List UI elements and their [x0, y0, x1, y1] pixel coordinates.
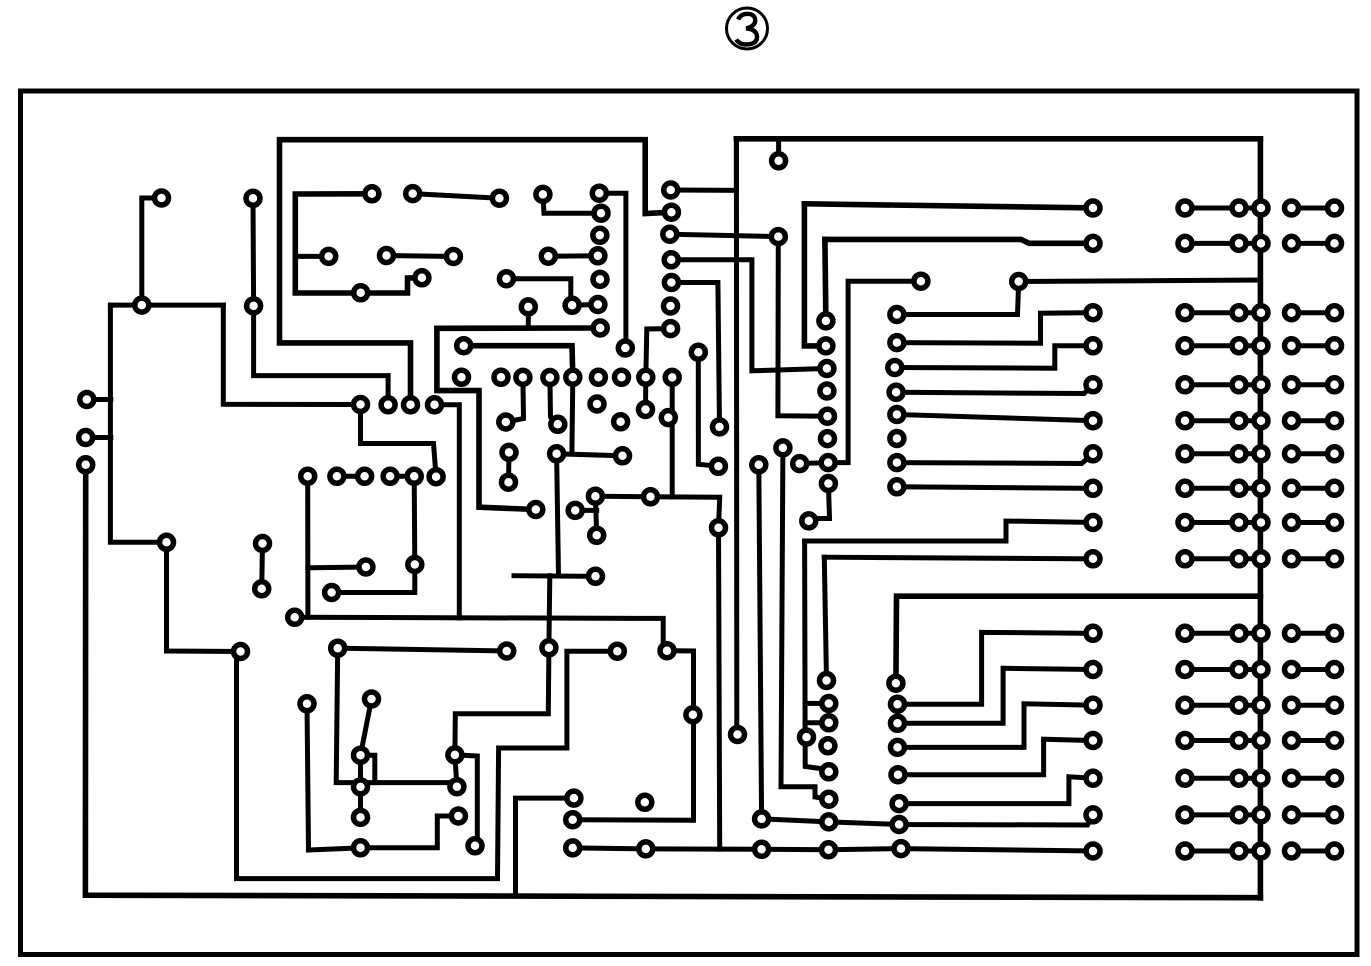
pad L10	[1086, 552, 1100, 566]
pad B3b	[1328, 306, 1342, 320]
wire row3 outer pair	[1292, 310, 1335, 315]
wire bottom long	[85, 465, 1260, 898]
pad B13b	[1328, 698, 1342, 712]
wire P69 to P87	[671, 260, 827, 371]
pad A3a	[1178, 306, 1192, 320]
wire P55-P56	[506, 452, 512, 482]
pad P8	[160, 535, 174, 549]
pad P131	[542, 641, 556, 655]
pad P7	[79, 458, 93, 472]
pad P140	[566, 813, 580, 827]
pad P37	[322, 249, 336, 263]
pad B2b	[1328, 236, 1342, 250]
pad B4b	[1328, 339, 1342, 353]
pad P27	[429, 470, 443, 484]
wire P165 to L13	[898, 704, 1094, 748]
wire P13 to P20	[307, 704, 361, 850]
wire y497	[595, 496, 719, 528]
pad B1b	[1328, 201, 1342, 215]
pad P169	[894, 842, 908, 856]
pad P104	[820, 674, 834, 688]
wire x805 branch2	[805, 720, 829, 725]
wire P29 to P27	[361, 405, 437, 477]
wire row5 inner pair	[1185, 382, 1239, 387]
wire row9 inner pair	[1185, 520, 1239, 525]
pad P20	[354, 841, 368, 855]
pad P55	[502, 445, 516, 459]
wire row7 inner pair	[1185, 451, 1239, 456]
pad B7a	[1285, 447, 1299, 461]
pad B13a	[1285, 698, 1299, 712]
pad P58	[614, 415, 628, 429]
pad P108	[822, 765, 836, 779]
wire P48 drop	[569, 377, 575, 454]
wire P162 to bus	[896, 596, 1261, 683]
pad P102	[755, 812, 769, 826]
wire x223 drop	[223, 305, 360, 404]
pad P16	[331, 641, 345, 655]
pad L8	[1086, 481, 1100, 495]
wire row7 bus stub	[1239, 451, 1261, 456]
pad P98	[713, 420, 727, 434]
wire x736 drop	[736, 139, 737, 735]
pad B7b	[1328, 447, 1342, 461]
pad P118	[591, 249, 605, 263]
wire row15 inner pair	[1185, 776, 1239, 781]
wire P164 to L12	[898, 668, 1094, 723]
wire row4 inner pair	[1185, 343, 1239, 348]
pad BUS11	[1254, 626, 1268, 640]
wire P57 to P59	[557, 454, 623, 456]
wire P96 to P102	[759, 465, 762, 819]
wire row10 inner pair	[1185, 556, 1239, 561]
wire P73 stub	[776, 139, 781, 161]
pad P84	[890, 480, 904, 494]
wire P83 to L7	[897, 454, 1093, 464]
pad P48	[566, 370, 580, 384]
wire row10 outer pair	[1292, 556, 1335, 561]
pad P28	[408, 558, 422, 572]
pad B2a	[1285, 236, 1299, 250]
wire P68 to P74	[670, 234, 779, 236]
pad P133	[610, 644, 624, 658]
pad P142	[638, 795, 652, 809]
wire row11 bus stub	[1239, 631, 1261, 636]
wire P8 to P11	[167, 542, 241, 651]
pad BUS16	[1254, 808, 1268, 822]
pad A3b	[1232, 306, 1246, 320]
wire row4 bus stub	[1239, 343, 1261, 348]
wire row9 outer pair	[1292, 520, 1335, 525]
pad P135	[448, 748, 462, 762]
wire y849 long	[573, 848, 1093, 851]
pad A2a	[1178, 236, 1192, 250]
pad P97	[711, 459, 725, 473]
pad P121	[593, 228, 607, 242]
pad B9b	[1328, 516, 1342, 530]
pad P77	[890, 308, 904, 322]
wire P77 to P76	[897, 282, 1019, 315]
pad P47	[543, 371, 557, 385]
wire y783	[336, 648, 457, 787]
pad P46	[516, 370, 530, 384]
wire P125 stub	[526, 307, 531, 328]
wire x805 drop	[805, 541, 829, 772]
pad A5b	[1232, 378, 1246, 392]
pad P67	[664, 205, 678, 219]
pad P93	[793, 457, 807, 471]
wire P78 to L3	[897, 313, 1093, 344]
wire P124 chain	[506, 279, 598, 306]
pad P31	[404, 398, 418, 412]
pad L13	[1086, 698, 1100, 712]
pad P117	[541, 249, 555, 263]
pad P166	[891, 768, 905, 782]
wire row5 outer pair	[1292, 382, 1335, 387]
pad P71	[664, 299, 678, 313]
pad P90	[821, 432, 835, 446]
wire row13 outer pair	[1292, 703, 1335, 708]
wire row2 bus stub	[1239, 241, 1261, 246]
pad A13b	[1232, 698, 1246, 712]
wire trace2 stub	[295, 254, 328, 259]
pad P139	[567, 791, 581, 805]
pad P40	[354, 286, 368, 300]
wire P163 to L11	[898, 632, 1094, 704]
pad P91	[821, 456, 835, 470]
pad P39	[446, 250, 460, 264]
wire trace2	[295, 194, 422, 293]
pad B15b	[1328, 771, 1342, 785]
wire row13 bus stub	[1239, 703, 1261, 708]
wire P81 to L6	[897, 415, 1093, 421]
pad P1	[155, 191, 169, 205]
wire y576	[514, 573, 596, 579]
pad P79	[888, 361, 902, 375]
pad BUS5	[1254, 378, 1268, 392]
wire snake P133	[237, 651, 618, 878]
pad P53	[499, 415, 513, 429]
pad P134	[660, 644, 674, 658]
pad P116	[591, 298, 605, 312]
wire P34-P35	[413, 194, 500, 199]
pad L2	[1086, 236, 1100, 250]
pad P22	[301, 469, 315, 483]
pad P34	[406, 187, 420, 201]
pad A7a	[1178, 447, 1192, 461]
pad B17a	[1285, 844, 1299, 858]
pad P3	[246, 191, 260, 205]
wire P80 to L5	[896, 385, 1093, 394]
wire P99 drop	[719, 528, 720, 849]
pad P94	[802, 514, 816, 528]
wire row6 inner pair	[1185, 418, 1239, 423]
wire P166 to L14	[898, 739, 1093, 775]
pad P60	[639, 403, 653, 417]
wire row9 bus stub	[1239, 520, 1261, 525]
pad A14b	[1232, 734, 1246, 748]
pad A8a	[1178, 481, 1192, 495]
pad BUS1	[1254, 201, 1268, 215]
wire P51-P60	[643, 377, 648, 409]
wire P23-P24	[337, 474, 365, 479]
pad P73	[772, 154, 786, 168]
pad P59	[616, 449, 630, 463]
pad BUS9	[1254, 516, 1268, 530]
pad P9	[256, 537, 270, 551]
wire y557 to L10	[824, 557, 1096, 559]
pad P63	[593, 321, 607, 335]
pad A6a	[1178, 414, 1192, 428]
pad P83	[890, 456, 904, 470]
pad L1	[1086, 201, 1100, 215]
wire row5 bus stub	[1239, 382, 1261, 387]
pad B5a	[1285, 378, 1299, 392]
wire y204 to L1	[804, 204, 1093, 208]
figure label circled 3	[727, 8, 768, 49]
wire P57 drop	[557, 454, 559, 576]
wire row13 inner pair	[1185, 703, 1239, 708]
pad B17b	[1328, 844, 1342, 858]
wire bus vertical	[1258, 139, 1264, 898]
pad B14b	[1328, 734, 1342, 748]
pad B11b	[1328, 626, 1342, 640]
pad P82	[890, 432, 904, 446]
wire row3 inner pair	[1185, 310, 1239, 315]
pad P65	[691, 345, 705, 359]
pad P2 junction	[135, 298, 149, 312]
pad B6b	[1328, 414, 1342, 428]
pad P162	[889, 676, 903, 690]
wire P5 stub	[87, 397, 111, 402]
pad B10b	[1328, 552, 1342, 566]
wire row8 inner pair	[1185, 486, 1239, 491]
pad A2b	[1232, 236, 1246, 250]
pad P124	[499, 272, 513, 286]
pad L7	[1086, 447, 1100, 461]
wire P32 drop	[435, 405, 460, 618]
pad P80	[889, 385, 903, 399]
pad P50	[615, 370, 629, 384]
pad P12	[288, 610, 302, 624]
pad B12b	[1328, 663, 1342, 677]
wire row1 inner pair	[1185, 206, 1239, 211]
pad P165	[891, 740, 905, 754]
pad L3	[1086, 306, 1100, 320]
wire P26 to P28	[412, 476, 418, 564]
wire row14 outer pair	[1292, 738, 1335, 743]
wire P66 up	[671, 139, 737, 190]
wire P16-P132	[338, 648, 507, 651]
wire x804 to P86	[804, 204, 826, 346]
wire P135 hook	[455, 755, 477, 846]
pad P52	[665, 370, 679, 384]
pad P62	[618, 341, 632, 355]
pad P10	[255, 582, 269, 596]
wire row6 outer pair	[1292, 418, 1335, 423]
pad B8a	[1285, 481, 1299, 495]
pad P101	[731, 728, 745, 742]
wire P75 to P91	[828, 281, 921, 462]
wire row2 outer pair	[1292, 241, 1335, 246]
pad P95	[776, 441, 790, 455]
pad P109	[822, 792, 836, 806]
pad A4b	[1232, 339, 1246, 353]
pad A1b	[1232, 201, 1246, 215]
pad BUS13	[1254, 698, 1268, 712]
pad P100	[686, 708, 700, 722]
pad P163	[891, 697, 905, 711]
pad P6	[79, 431, 93, 445]
pad P85	[819, 314, 833, 328]
pad P26	[407, 469, 421, 483]
wire P135-P136	[455, 755, 457, 787]
pad P99	[712, 521, 726, 535]
pad L12	[1086, 663, 1100, 677]
pad P129	[590, 528, 604, 542]
wire net y305	[110, 303, 223, 308]
wire P84 to L8	[897, 487, 1093, 489]
pad L11	[1086, 626, 1100, 640]
pad P112	[800, 730, 814, 744]
wire row4 outer pair	[1292, 343, 1335, 348]
pad A10b	[1232, 552, 1246, 566]
pad P125	[521, 300, 535, 314]
pad P107	[821, 739, 835, 753]
pad P45	[494, 370, 508, 384]
pad P130	[589, 569, 603, 583]
pad P115	[565, 298, 579, 312]
wire row14 inner pair	[1185, 738, 1239, 743]
wire P119 to P62	[599, 193, 626, 348]
pad BUS17	[1254, 844, 1268, 858]
wire P9-P10	[259, 544, 265, 589]
pad A12b	[1232, 663, 1246, 677]
pad P138	[468, 839, 482, 853]
wire row12 bus stub	[1239, 667, 1261, 672]
wire y617	[295, 617, 667, 650]
pad P86	[819, 339, 833, 353]
pad P167	[892, 797, 906, 811]
pad A10a	[1178, 552, 1192, 566]
pad B14a	[1285, 734, 1299, 748]
wire row8 bus stub	[1239, 486, 1261, 491]
pad B16a	[1285, 808, 1299, 822]
pad P74	[771, 230, 785, 244]
pad A14a	[1178, 734, 1192, 748]
wire P6 stub	[86, 435, 111, 440]
pad A16a	[1178, 808, 1192, 822]
pad B9a	[1285, 516, 1299, 530]
pad L6	[1086, 414, 1100, 428]
pad L17	[1086, 844, 1100, 858]
pad P61	[590, 397, 604, 411]
pad B12a	[1285, 663, 1299, 677]
wire P126 stub	[575, 508, 597, 513]
wire P17-P18-P19	[358, 755, 363, 817]
pad BUS10	[1254, 552, 1268, 566]
pad P81	[890, 408, 904, 422]
pad A12a	[1178, 663, 1192, 677]
pad P87	[820, 362, 834, 376]
pad P76	[1012, 275, 1026, 289]
wire row1 outer pair	[1292, 206, 1335, 211]
pad BUS8	[1254, 481, 1268, 495]
pad P23	[330, 469, 344, 483]
pad L4	[1086, 339, 1100, 353]
pad P96	[752, 458, 766, 472]
pad P19	[354, 810, 368, 824]
pad A17b	[1232, 844, 1246, 858]
pad A15a	[1178, 771, 1192, 785]
pad A11b	[1232, 626, 1246, 640]
wire P28 to P14	[332, 565, 415, 593]
pad B6a	[1285, 414, 1299, 428]
pad P4	[247, 299, 261, 313]
wire P65 to P97	[698, 352, 718, 466]
pad P54	[551, 417, 565, 431]
wire P1 to P2	[142, 198, 162, 305]
wire P79 to L4	[895, 346, 1093, 368]
pad L5	[1086, 378, 1100, 392]
pad P89	[821, 409, 835, 423]
pad P30	[381, 398, 395, 412]
pad B11a	[1285, 626, 1299, 640]
wire P47 to P54	[550, 378, 558, 425]
pad P72	[664, 322, 678, 336]
pad P21	[365, 692, 379, 706]
pad P5	[80, 393, 94, 407]
pad B1a	[1285, 201, 1299, 215]
pad P56	[502, 475, 516, 489]
pad A9a	[1178, 516, 1192, 530]
wire P36 to P120	[543, 194, 601, 213]
wire P15 stub	[308, 565, 366, 571]
pad P141	[566, 841, 580, 855]
wire P25-P26	[390, 474, 414, 479]
wire x110 drop	[110, 305, 166, 542]
wire thick y328	[437, 328, 600, 510]
pad BUS15	[1254, 771, 1268, 785]
pad BUS6	[1254, 414, 1268, 428]
wire P21 to P17	[361, 699, 372, 755]
wire row12 inner pair	[1185, 667, 1239, 672]
pad P41	[415, 271, 429, 285]
pad B3a	[1285, 306, 1299, 320]
wire P127-P129	[595, 496, 596, 535]
wire P70 to P98	[671, 283, 719, 427]
pad P164	[891, 716, 905, 730]
pad P126	[568, 503, 582, 517]
pad P43	[457, 339, 471, 353]
pad P137	[451, 809, 465, 823]
wire P46 to P53	[506, 377, 524, 422]
pad P78	[890, 336, 904, 350]
wire P52 drop	[670, 377, 675, 497]
wire x824 to P85	[825, 239, 826, 321]
pad P18	[354, 780, 368, 794]
wire snake P140	[573, 651, 694, 821]
pad A5a	[1178, 378, 1192, 392]
pad B8b	[1328, 481, 1342, 495]
pad P49	[591, 370, 605, 384]
wire row17 bus stub	[1239, 849, 1261, 854]
pad A7b	[1232, 447, 1246, 461]
wire row1 bus stub	[1239, 206, 1261, 211]
wire P22 drop	[305, 476, 310, 617]
pad P143	[639, 842, 653, 856]
pad P29	[354, 398, 368, 412]
